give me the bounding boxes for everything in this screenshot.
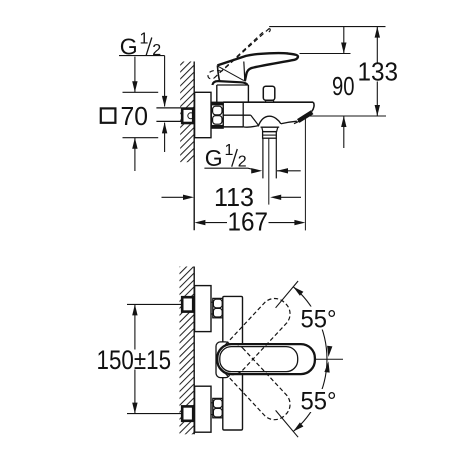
svg-text:150±15: 150±15: [97, 345, 172, 375]
svg-text:55°: 55°: [301, 387, 337, 415]
svg-text:70: 70: [121, 101, 149, 131]
svg-text:167: 167: [228, 207, 269, 237]
svg-text:90: 90: [332, 71, 355, 101]
svg-text:55°: 55°: [301, 305, 337, 333]
svg-text:1: 1: [140, 31, 149, 48]
svg-text:133: 133: [358, 56, 399, 86]
svg-text:G: G: [205, 145, 223, 171]
svg-text:1: 1: [225, 142, 234, 159]
svg-text:2: 2: [152, 42, 161, 59]
